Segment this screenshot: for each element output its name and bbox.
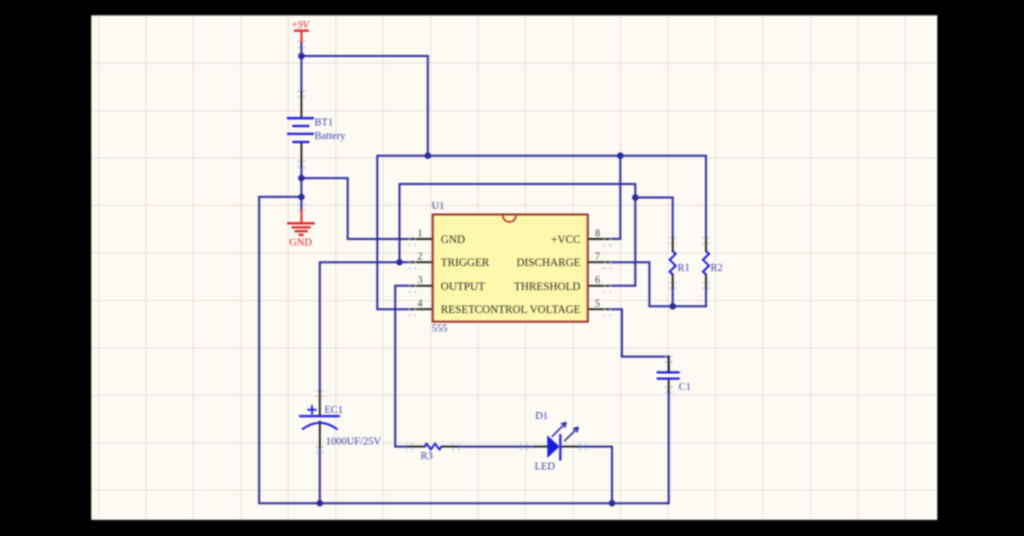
svg-text:+VCC: +VCC xyxy=(551,234,580,246)
svg-text:U1: U1 xyxy=(432,201,445,212)
svg-text:555: 555 xyxy=(432,324,448,335)
svg-text:1000UF/25V: 1000UF/25V xyxy=(326,437,382,448)
svg-text:+9V: +9V xyxy=(291,20,311,31)
svg-text:R1: R1 xyxy=(678,263,690,274)
svg-text:C1: C1 xyxy=(679,382,691,393)
svg-text:6: 6 xyxy=(595,275,600,286)
svg-text:LED: LED xyxy=(535,461,556,472)
svg-text:TRIGGER: TRIGGER xyxy=(441,257,490,269)
svg-text:BT1: BT1 xyxy=(315,117,334,128)
svg-text:Battery: Battery xyxy=(315,131,347,142)
svg-text:CONTROL VOLTAGE: CONTROL VOLTAGE xyxy=(475,304,581,316)
svg-text:4: 4 xyxy=(418,299,423,310)
svg-text:GND: GND xyxy=(289,238,312,249)
svg-text:D1: D1 xyxy=(535,411,548,422)
svg-text:DISCHARGE: DISCHARGE xyxy=(516,257,580,269)
svg-text:THRESHOLD: THRESHOLD xyxy=(514,281,581,293)
svg-text:R3: R3 xyxy=(421,451,433,462)
svg-text:R2: R2 xyxy=(711,263,723,274)
svg-text:EC1: EC1 xyxy=(324,405,343,416)
svg-text:OUTPUT: OUTPUT xyxy=(441,281,485,293)
svg-text:RESET: RESET xyxy=(441,304,475,316)
svg-text:7: 7 xyxy=(595,252,600,263)
svg-text:1: 1 xyxy=(418,228,423,239)
svg-text:5: 5 xyxy=(595,299,600,310)
svg-text:GND: GND xyxy=(441,234,465,246)
svg-text:8: 8 xyxy=(595,228,600,239)
svg-text:2: 2 xyxy=(418,252,423,263)
svg-text:3: 3 xyxy=(418,275,423,286)
